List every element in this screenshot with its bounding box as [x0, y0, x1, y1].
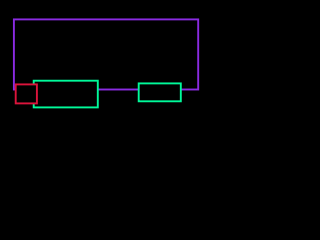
right green box (mediumspringgreen): [139, 83, 181, 101]
left green box (mediumspringgreen): [34, 81, 98, 108]
red box (crimson): [16, 84, 37, 103]
outer boundary box (blueviolet): [14, 19, 198, 89]
